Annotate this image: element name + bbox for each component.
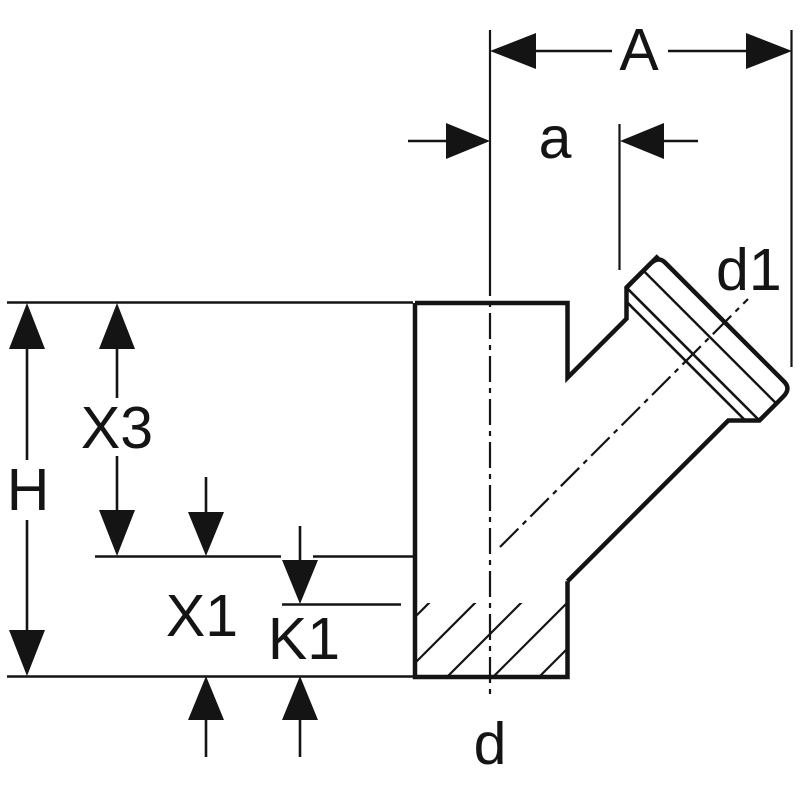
branch axis centerline bbox=[500, 299, 748, 547]
dimension H bbox=[7, 303, 50, 676]
socket chamfer edge line u=287 bbox=[627, 288, 760, 421]
svg-text:A: A bbox=[619, 17, 659, 83]
svg-text:X1: X1 bbox=[166, 583, 238, 649]
pipe body outline bbox=[415, 256, 658, 677]
extension line mid (y=556.5) bbox=[95, 555, 281, 557]
dimension K1 (outside arrows) bbox=[268, 526, 340, 757]
svg-text:X3: X3 bbox=[81, 395, 153, 461]
dimension a bbox=[408, 105, 698, 270]
extension line K1 top (y=604.5) bbox=[282, 603, 401, 605]
dimension X1 (outside arrows) bbox=[166, 477, 238, 757]
dimension A bbox=[490, 17, 792, 367]
pipe vertical centerline bbox=[489, 30, 491, 270]
section hatch in pipe bottom bbox=[355, 602, 614, 677]
extension line top (y=303) bbox=[7, 301, 413, 303]
svg-text:a: a bbox=[539, 105, 572, 171]
svg-text:K1: K1 bbox=[268, 606, 340, 672]
svg-text:d1: d1 bbox=[716, 237, 782, 303]
svg-text:d: d bbox=[474, 711, 507, 777]
dimension X3 bbox=[81, 303, 153, 556]
extension line bottom (y=676.5) bbox=[7, 675, 413, 677]
socket chamfer edge line u=265 bbox=[627, 302, 746, 421]
branch socket collar outline bbox=[568, 260, 788, 582]
svg-text:H: H bbox=[7, 457, 50, 523]
socket rim inner edge u=311 bbox=[643, 271, 776, 404]
